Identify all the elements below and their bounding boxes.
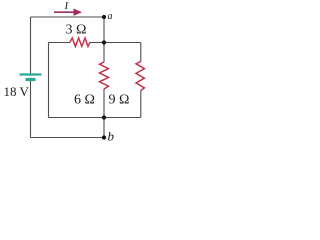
svg-text:6 Ω: 6 Ω xyxy=(74,93,95,108)
resistor R1 3-ohm zigzag xyxy=(70,38,90,46)
wire: bottom rail to node b xyxy=(31,137,105,139)
wire: left vertical lower (battery - lead) xyxy=(30,81,32,138)
svg-text:I: I xyxy=(64,0,70,12)
svg-text:a: a xyxy=(108,11,113,22)
wire: node b stem xyxy=(103,118,105,138)
battery V1 long positive plate xyxy=(20,73,42,75)
junction dot top (a-3ohm-6ohm-9ohm) xyxy=(102,40,106,44)
resistor R3 9-ohm zigzag xyxy=(136,62,144,91)
junction dot bottom rail xyxy=(102,115,106,119)
wire: 6-ohm top lead xyxy=(103,43,105,63)
wire: 6-ohm bottom lead xyxy=(103,89,105,118)
resistor R2 6-ohm zigzag xyxy=(100,62,109,89)
battery V1 short negative plate xyxy=(26,78,36,81)
svg-text:3 Ω: 3 Ω xyxy=(66,23,87,38)
wire: 9-ohm top lead xyxy=(140,43,142,62)
svg-text:b: b xyxy=(108,129,115,144)
wire: inner bottom rail xyxy=(49,117,141,119)
node a junction dot xyxy=(102,15,106,19)
wire: inner left vertical xyxy=(48,43,50,118)
node b junction dot xyxy=(102,135,106,139)
svg-text:18 V: 18 V xyxy=(4,84,30,99)
wire: node a stem down to top junction xyxy=(103,17,105,43)
svg-text:9 Ω: 9 Ω xyxy=(109,93,130,108)
wire: 3-ohm right lead xyxy=(90,42,104,44)
current arrow I xyxy=(54,11,75,13)
wire: 3-ohm left lead xyxy=(49,42,71,44)
wire: left vertical upper (battery + lead) xyxy=(30,17,32,74)
wire: top rail of 9-ohm branch xyxy=(104,42,141,44)
wire: top rail from battery top to node a xyxy=(31,16,105,18)
wire: 9-ohm bottom lead xyxy=(140,91,142,118)
